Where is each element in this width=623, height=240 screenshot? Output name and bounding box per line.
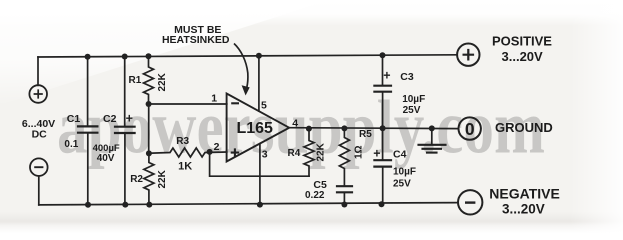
svg-text:C1: C1	[67, 113, 81, 125]
terminal 0 right	[459, 117, 481, 139]
resistor R3	[149, 148, 227, 157]
node top rail C1	[85, 54, 91, 60]
node bottom C1	[85, 202, 91, 208]
heatsink arrow	[234, 44, 248, 88]
wire left negative drop	[38, 176, 40, 205]
terminal + left	[29, 85, 47, 103]
wire C2 branch upper	[124, 57, 126, 127]
wire C2 branch lower	[124, 133, 126, 204]
wire C1 branch lower	[87, 133, 89, 205]
wire output rail	[289, 127, 458, 130]
terminal - right	[458, 190, 482, 214]
node pin2 junction	[207, 149, 213, 155]
capacitor C5	[337, 186, 352, 192]
svg-text:1Ω: 1Ω	[354, 145, 365, 159]
svg-text:R1: R1	[129, 75, 142, 86]
svg-text:0.22: 0.22	[305, 190, 325, 201]
svg-text:+: +	[373, 147, 380, 161]
svg-text:3...20V: 3...20V	[502, 49, 544, 64]
svg-text:L165: L165	[236, 120, 273, 137]
op-amp U1 non-inverting input plus	[231, 148, 240, 156]
svg-text:10µF: 10µF	[393, 167, 416, 178]
wire pin1	[149, 103, 227, 105]
svg-text:GROUND: GROUND	[495, 120, 553, 135]
ground	[431, 128, 433, 144]
svg-text:POSITIVE: POSITIVE	[492, 34, 552, 49]
node output R5	[341, 125, 347, 131]
svg-text:22K: 22K	[157, 72, 168, 91]
svg-text:4: 4	[292, 118, 298, 130]
svg-text:R3: R3	[176, 136, 189, 147]
svg-text:C3: C3	[400, 71, 414, 83]
node pin1 junction	[146, 101, 152, 107]
svg-text:HEATSINKED: HEATSINKED	[162, 34, 230, 46]
node R3 left junction	[146, 150, 152, 156]
capacitor C2	[115, 127, 135, 133]
capacitor C1	[78, 126, 97, 132]
wire C1 branch upper	[87, 57, 89, 126]
node top rail R1	[146, 53, 152, 59]
svg-text:3: 3	[262, 149, 268, 161]
svg-text:0: 0	[465, 119, 475, 139]
svg-text:+: +	[126, 112, 133, 126]
wire C4 lower	[382, 167, 384, 204]
wire left input riser	[37, 57, 39, 85]
svg-text:40V: 40V	[97, 153, 115, 164]
svg-text:DC: DC	[32, 128, 48, 140]
svg-text:22K: 22K	[157, 169, 168, 188]
resistor R1	[144, 56, 154, 104]
wire bottom rail	[39, 203, 458, 205]
wire C3 branch upper	[382, 55, 384, 85]
svg-text:25V: 25V	[393, 179, 411, 190]
svg-text:R4: R4	[288, 148, 301, 159]
node top rail C2	[122, 54, 128, 60]
node output C3C4	[380, 125, 386, 131]
node top rail pin5	[256, 53, 262, 59]
svg-text:2: 2	[214, 141, 220, 153]
wire pin3	[259, 144, 261, 205]
node bottom C4	[379, 201, 385, 207]
svg-text:1K: 1K	[178, 160, 192, 172]
svg-text:25V: 25V	[403, 105, 421, 116]
svg-text:10µF: 10µF	[402, 94, 425, 105]
svg-text:+: +	[383, 69, 390, 83]
resistor R4	[304, 129, 314, 177]
wire C3-C4 mid	[382, 92, 384, 160]
svg-text:NEGATIVE: NEGATIVE	[489, 186, 560, 202]
wire feedback	[210, 152, 309, 176]
svg-text:5: 5	[261, 99, 267, 111]
node output R4	[306, 126, 312, 132]
svg-text:R2: R2	[130, 174, 143, 185]
svg-text:22K: 22K	[316, 142, 327, 161]
node bottom C2	[122, 202, 128, 208]
node bottom R2	[146, 202, 152, 208]
svg-text:3...20V: 3...20V	[502, 202, 545, 217]
capacitor C4	[374, 160, 391, 166]
svg-text:0.1: 0.1	[64, 139, 78, 150]
resistor R5	[339, 128, 349, 185]
wire pin5	[258, 56, 260, 111]
wire C5 lower	[343, 193, 345, 205]
wire top rail	[38, 55, 457, 57]
node output ground	[429, 125, 435, 131]
resistor R2	[144, 154, 154, 205]
op-amp U1 triangle	[227, 94, 290, 162]
capacitor C3	[374, 86, 391, 92]
wire R1-R2 mid	[148, 104, 150, 154]
terminal + right	[457, 44, 479, 66]
svg-text:R5: R5	[359, 129, 372, 140]
node top rail C3	[380, 52, 386, 58]
svg-text:C4: C4	[393, 149, 407, 161]
svg-text:1: 1	[211, 93, 217, 105]
node bottom pin3	[257, 202, 263, 208]
op-amp U1 inverting input minus	[231, 102, 239, 104]
svg-text:C2: C2	[103, 113, 117, 125]
node bottom C5	[341, 202, 347, 208]
terminal - left	[30, 158, 48, 176]
